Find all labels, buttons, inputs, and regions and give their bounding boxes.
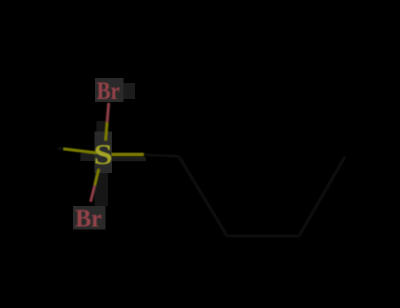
faint hexagon bottom-left edge <box>179 157 227 237</box>
bond S to ring, faint half <box>144 155 179 157</box>
bond methyl to S (olive) <box>64 149 97 153</box>
label box behind lower bond <box>95 173 109 206</box>
label box strip under S-ring bond <box>112 157 146 161</box>
faint inner double bond line bottom-right <box>294 158 336 226</box>
label box behind upper bond <box>97 121 108 133</box>
bond S to Br top, maroon half <box>107 103 109 122</box>
label box Br bottom <box>73 206 106 230</box>
label box S <box>95 132 113 174</box>
label box behind methyl bond <box>81 153 95 161</box>
faint hexagon bottom edge <box>227 234 299 238</box>
svg-text:S: S <box>94 139 113 170</box>
bond S to ring, bright half <box>112 153 144 156</box>
faint hexagon top edge <box>227 74 299 78</box>
bond methyl tip faint <box>58 147 65 151</box>
label box Br top right extension <box>124 83 136 99</box>
faint hexagon top-left edge <box>179 76 227 157</box>
atom label S <box>94 139 113 170</box>
faint hexagon top-right edge <box>299 76 345 157</box>
label box Br top <box>95 78 124 102</box>
bond S to Br bottom, olive half <box>95 169 99 186</box>
svg-text:Br: Br <box>97 78 120 105</box>
bond S to Br top, olive half <box>106 122 108 141</box>
faint inner double bond line top <box>237 85 289 88</box>
svg-text:Br: Br <box>75 205 102 232</box>
faint hexagon bottom-right edge <box>299 157 345 237</box>
bond S to Br bottom, maroon half <box>91 185 95 202</box>
faint inner double bond line bottom-left <box>190 160 232 226</box>
